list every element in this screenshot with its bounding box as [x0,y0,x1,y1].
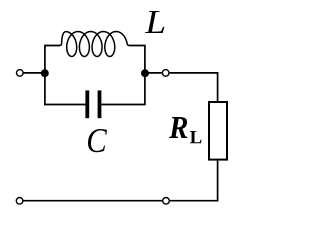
terminal (open circle) bottom-left [16,198,23,205]
label RL: R [169,117,187,138]
inductor L coil [60,32,130,57]
terminal (open circle) bottom middle [163,198,170,205]
capacitor C right plate [98,90,102,118]
wire top-left terminal to junction [23,72,41,74]
wire inductor to right side of LC loop [101,46,144,105]
wire right junction to terminal [145,72,162,74]
node junction dot right [141,69,149,77]
wire resistor bottom to bottom-right corner [170,161,218,201]
wire bottom from terminal to bottom-left terminal [23,200,162,202]
node junction dot left [41,69,49,77]
label RL: L subscript [190,131,201,143]
wire left side of LC loop [45,46,86,105]
label C [88,129,107,152]
label L [145,11,164,33]
resistor RL box [209,102,227,160]
wire terminal to resistor branch top [170,73,218,101]
capacitor C left plate [85,90,89,118]
terminal (open circle) top-left [17,70,24,77]
terminal (open circle) mid right [162,70,169,77]
